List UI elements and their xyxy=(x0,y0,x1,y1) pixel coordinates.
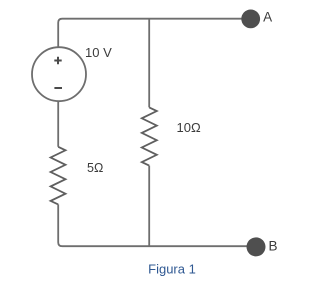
voltage source (10 V) xyxy=(32,47,86,101)
wire: left branch between source bottom and resistor 5Ω xyxy=(57,101,59,146)
svg-text:Figura 1: Figura 1 xyxy=(148,261,196,276)
wire: middle branch from top rail down to resistor 10Ω xyxy=(148,19,150,108)
terminal B (filled dot) xyxy=(247,237,266,256)
wire: top rail with rounded corner from left branch down to source top, across to terminal A xyxy=(58,19,242,47)
plus sign of source xyxy=(54,57,61,64)
minus sign of source xyxy=(54,87,62,89)
svg-text:10Ω: 10Ω xyxy=(177,120,201,135)
resistor 10Ω (zigzag) xyxy=(142,107,157,165)
svg-text:B: B xyxy=(269,238,278,253)
svg-text:10 V: 10 V xyxy=(85,45,112,60)
resistor 5Ω (zigzag) xyxy=(51,147,66,205)
wire: bottom rail from resistor 5Ω bottom, rounded corner, across to terminal B xyxy=(58,204,247,246)
svg-text:A: A xyxy=(263,10,272,25)
terminal A (filled dot) xyxy=(241,10,260,29)
wire: middle branch from resistor 10Ω bottom to bottom rail xyxy=(148,166,150,247)
svg-text:5Ω: 5Ω xyxy=(87,161,103,175)
